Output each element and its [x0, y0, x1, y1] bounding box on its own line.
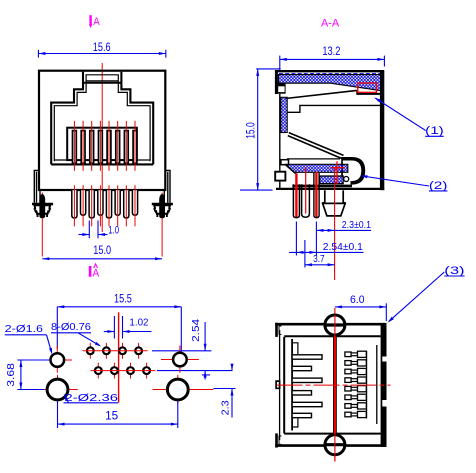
svg-text:A-A: A-A [321, 17, 340, 29]
svg-text:1.0: 1.0 [108, 224, 119, 236]
front view dimension 1.0 [79, 221, 120, 239]
svg-text:2-Ø2.36: 2-Ø2.36 [65, 392, 119, 404]
bottom view right wall [381, 323, 387, 447]
footprint right hole Ø1.6 [161, 359, 199, 361]
svg-text:15.6: 15.6 [93, 42, 111, 54]
footprint label 2-Ø2.36 [64, 392, 119, 404]
svg-text:6.0: 6.0 [350, 294, 365, 306]
section dimension 2.54±0.1 [289, 222, 363, 256]
hole bottom row 3 [130, 363, 132, 379]
section cavity sloped top line [286, 90, 357, 98]
hole top row 3 [122, 343, 124, 359]
right finger 5 [345, 386, 351, 391]
contact 1 [73, 131, 77, 164]
right finger 1 [345, 352, 351, 357]
footprint left hole Ø1.6 [43, 359, 72, 361]
callout (1) [374, 97, 444, 137]
pin 5 [106, 190, 111, 218]
contact 4 [99, 131, 103, 164]
bottom view horizontal centerline [277, 384, 391, 386]
bottom view bottom screw [325, 435, 345, 455]
contact 7 [124, 131, 128, 164]
bottom view screws red centerline overlay [334, 315, 336, 462]
section lower hatch block [320, 176, 344, 184]
svg-text:(2): (2) [429, 180, 448, 192]
section bottom shelf line [292, 185, 352, 188]
section dimension 3.7 [305, 240, 335, 268]
hole top row 2 [105, 343, 107, 359]
contact 3 [90, 131, 94, 164]
front view jack body outline [39, 71, 165, 190]
section pin 3 outline [314, 173, 319, 218]
front view dimension 15.6 [38, 42, 165, 57]
svg-text:8-Ø0.76: 8-Ø0.76 [51, 321, 91, 333]
section dimension 13.2 [280, 46, 385, 72]
section top hatched band [279, 75, 383, 91]
svg-text:15.0: 15.0 [246, 122, 258, 139]
front view jack opening inner contour [54, 75, 150, 162]
bottom view left tab bottom [275, 433, 278, 447]
front view dimension 15.0 [42, 245, 162, 260]
svg-text:2-Ø1.6: 2-Ø1.6 [5, 323, 43, 335]
svg-text:15.5: 15.5 [114, 293, 132, 305]
contact 5 [107, 131, 111, 164]
callout (2) [360, 175, 447, 192]
footprint row extension lines (2.54 dim) [152, 319, 233, 380]
front view centerline [101, 63, 103, 232]
section body top edge [275, 70, 384, 72]
front view contact box [67, 128, 137, 160]
pin 8 [132, 190, 137, 215]
callout (3) [388, 265, 465, 323]
section pin 1 outline [293, 184, 299, 217]
section body bottom edge [276, 188, 384, 190]
contact 6 [116, 131, 120, 164]
section shelf with hatch [287, 158, 340, 160]
front view left ear [34, 170, 40, 202]
front view section label A (bottom) [89, 263, 100, 280]
section left wall hatch column [281, 97, 287, 132]
hole bottom row 4 [146, 363, 148, 379]
bottom view left comb step bottom [292, 416, 298, 427]
section left wall lower [279, 94, 281, 172]
svg-text:(1): (1) [425, 125, 444, 137]
pin 4 [98, 190, 103, 215]
svg-text:A: A [93, 16, 100, 28]
left finger 4 [292, 391, 311, 395]
section red contact box (top right) [358, 83, 377, 92]
left finger 6 [292, 413, 311, 417]
section plug cavity top line [287, 105, 382, 112]
svg-text:2.54±0.1: 2.54±0.1 [323, 241, 363, 253]
right finger 8 [345, 412, 351, 417]
bottom view screws red centerline [334, 308, 336, 462]
contact 8 [133, 131, 137, 164]
section left wall upper [275, 70, 278, 94]
footprint dimension 2.3 (vertical right) [214, 364, 236, 418]
section dimension 2.3±0.1 [316, 219, 371, 256]
footprint label 2-Ø1.6 [5, 323, 53, 355]
section contact spring double line [288, 136, 342, 159]
bottom view dimension 6.0 [335, 294, 386, 321]
left finger 5 [292, 402, 322, 406]
right finger 7 [345, 404, 351, 409]
svg-text:15.0: 15.0 [93, 245, 111, 257]
bottom view left wall double line [279, 330, 281, 440]
front view left mounting post [41, 193, 43, 257]
section post centerline [334, 168, 336, 280]
svg-text:15: 15 [105, 411, 118, 423]
pin 3 [89, 190, 94, 218]
svg-text:(3): (3) [444, 265, 464, 277]
front view right mounting post [161, 193, 163, 257]
pin 7 [124, 190, 129, 218]
bottom view center shaft [333, 335, 335, 436]
hole top row 4 [138, 343, 140, 359]
svg-text:2.54: 2.54 [190, 319, 202, 342]
section contact hook [341, 157, 365, 185]
hole bottom row 2 [113, 363, 115, 379]
section pin 2 outline [302, 184, 310, 217]
section left black block with notch [275, 83, 286, 94]
footprint left hole Ø2.36 [44, 389, 78, 391]
section left foot [275, 172, 285, 181]
footprint label 8-Ø0.76 [51, 321, 101, 346]
section dimension 15.0 (vertical) [240, 69, 281, 190]
bottom view top screw [325, 315, 345, 335]
hole bottom row 1 [97, 363, 99, 379]
left finger 3 [292, 378, 322, 382]
section hidden dashed line [279, 72, 381, 74]
section spring anchor box [281, 160, 289, 165]
left finger 1 [292, 355, 322, 359]
svg-text:A: A [92, 267, 99, 279]
section right wall [380, 71, 384, 190]
front view latch window bottom lines [86, 80, 118, 82]
pin 2 [81, 190, 86, 215]
svg-text:13.2: 13.2 [322, 46, 340, 58]
svg-text:2.3±0.1: 2.3±0.1 [342, 219, 371, 231]
footprint row red centerlines [83, 350, 148, 352]
contact 2 [81, 131, 85, 164]
section red contact wires [295, 173, 297, 218]
bottom view left tab top [275, 323, 278, 337]
bottom view inner lines [284, 335, 380, 337]
section step diagonal [285, 165, 295, 174]
pin 6 [115, 190, 120, 215]
hole top row 1 [89, 343, 91, 359]
svg-text:2.3: 2.3 [219, 400, 231, 415]
footprint dimension 15 [58, 402, 178, 429]
left finger 2 [292, 366, 311, 370]
svg-text:3.7: 3.7 [313, 253, 325, 265]
footprint dimension 3.68 (vertical) [5, 360, 50, 390]
footprint dimension 1.02 [104, 316, 152, 339]
right finger 6 [345, 395, 351, 400]
pin 1 [72, 190, 77, 218]
bottom view body top edge [275, 323, 386, 326]
front view right ear [164, 170, 170, 202]
footprint vertical centerline [118, 312, 120, 402]
right finger 3 [345, 369, 351, 374]
footprint right hole Ø2.36 [153, 389, 214, 391]
bottom view left comb step top [292, 343, 298, 354]
section snap post [323, 190, 346, 216]
svg-text:3.68: 3.68 [5, 363, 17, 387]
front view jack opening outer contour [51, 72, 153, 165]
svg-text:1.02: 1.02 [129, 317, 148, 329]
right finger 2 [345, 361, 351, 366]
bottom view mid-left bump [276, 381, 280, 388]
footprint dimension 15.5 [57, 293, 181, 352]
bottom view body bottom edge [275, 444, 386, 447]
front view section label A (top) [89, 15, 100, 28]
right finger 4 [345, 378, 351, 383]
